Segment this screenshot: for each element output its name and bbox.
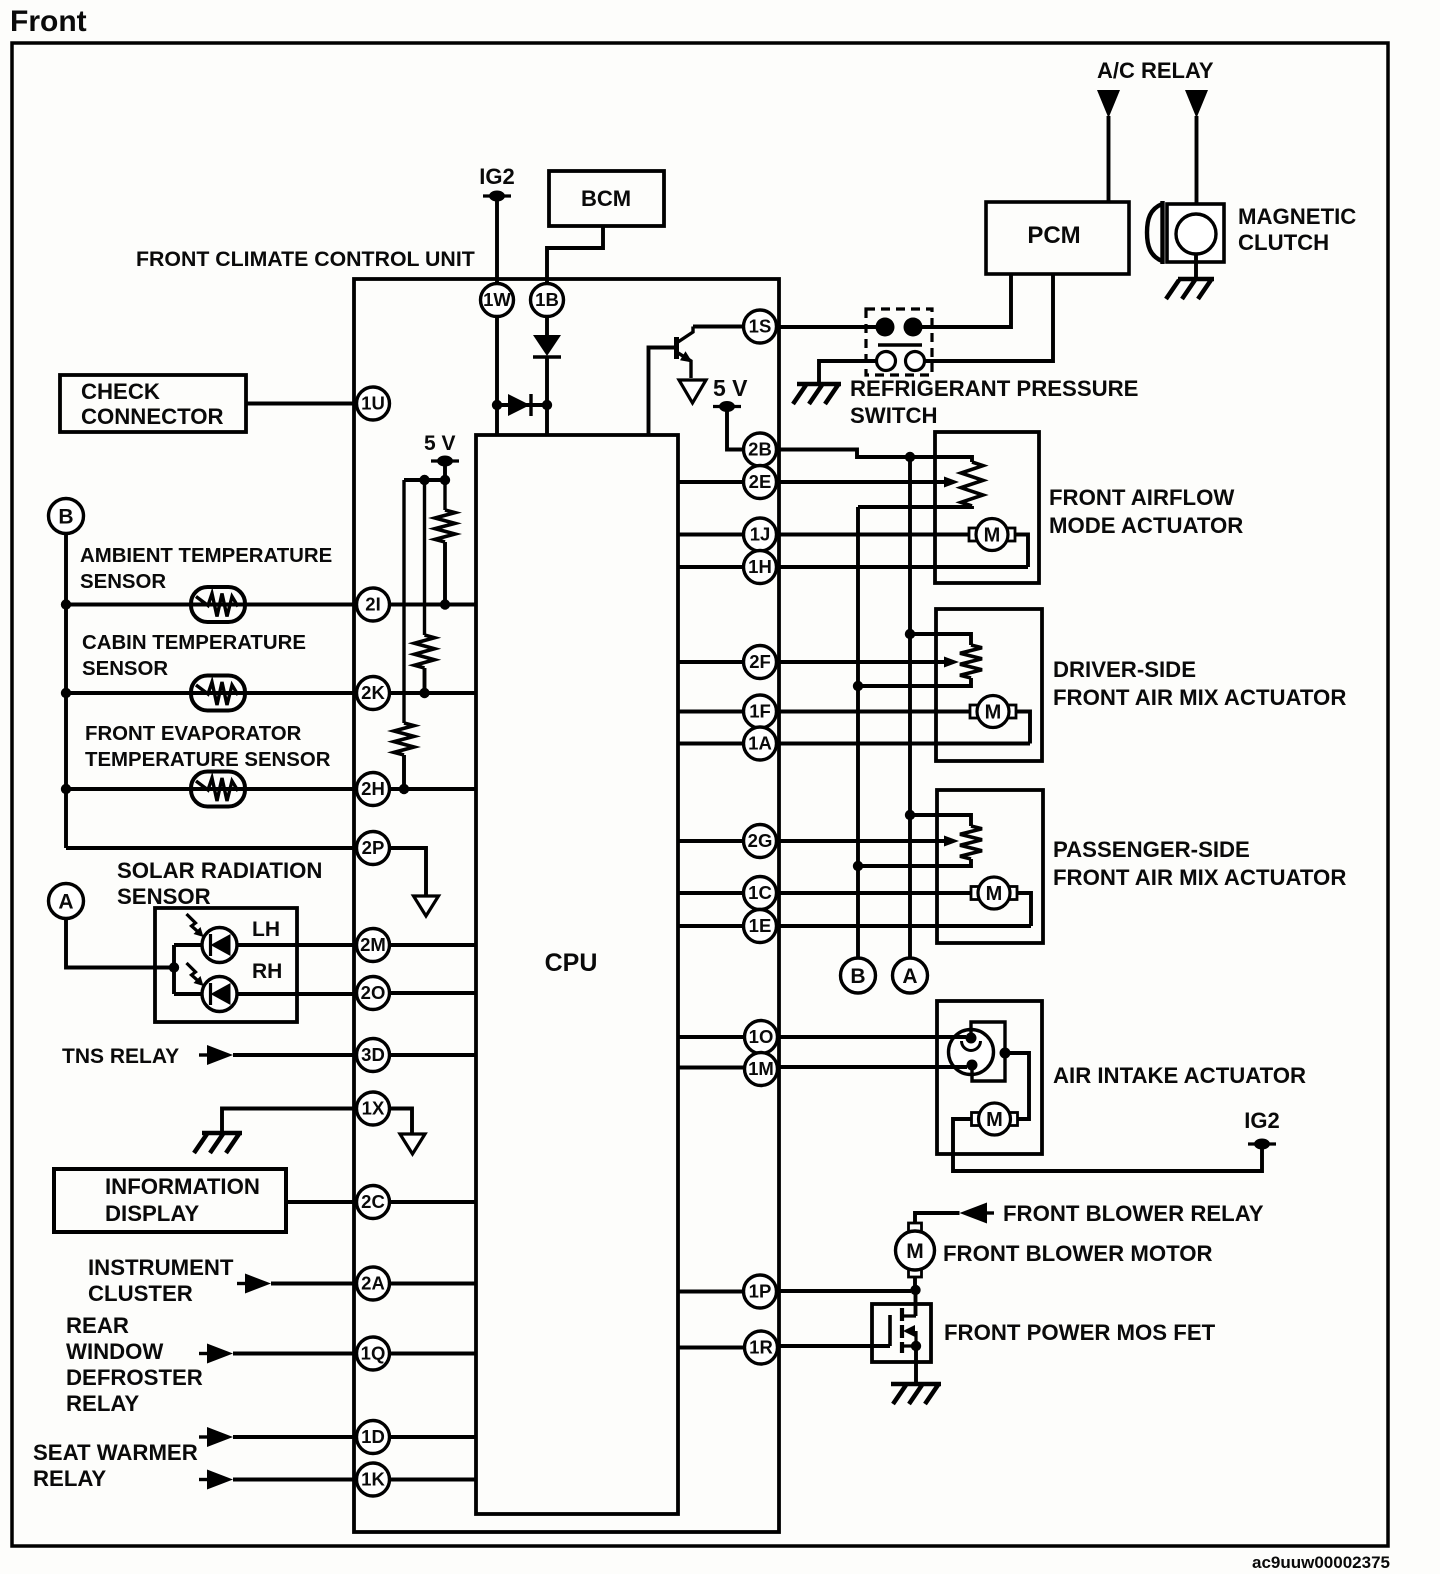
wire cam switch to motor	[1005, 1053, 1029, 1119]
CHECK CONNECTOR box	[60, 375, 246, 432]
node A bottom	[893, 958, 928, 993]
wire 2H row to CPU	[389, 787, 476, 791]
pin 2P	[357, 832, 390, 865]
wiper arrow 2F	[944, 657, 959, 668]
wire motor return to pin 1H	[777, 535, 1029, 568]
pin 1F	[744, 695, 777, 728]
passenger-side front air mix actuator box	[937, 790, 1043, 943]
wire motor return to pin 1E	[777, 893, 1032, 926]
junction R2 2K row	[419, 688, 429, 698]
ground triangle Q1 emitter	[679, 380, 706, 403]
pin 1W	[481, 284, 514, 317]
pin 1S	[744, 310, 777, 343]
position sensor resistor passenger-side	[960, 826, 982, 859]
chassis ground MOSFET	[891, 1384, 941, 1404]
pin 1K	[357, 1463, 390, 1496]
arrow rear window defroster relay	[199, 1344, 233, 1364]
thermistor front evaporator temperature sensor	[191, 772, 245, 807]
wire pin 1Q to CPU	[389, 1352, 476, 1356]
svg-text:A: A	[58, 891, 73, 914]
wire 2K row to CPU	[389, 691, 476, 695]
wire evaporator sensor row	[66, 787, 357, 791]
solar radiation sensor box	[155, 908, 297, 1022]
svg-text:2M: 2M	[360, 934, 386, 955]
svg-text:1W: 1W	[483, 289, 511, 310]
wire node A to sensor	[66, 919, 174, 968]
pin 1R	[745, 1331, 778, 1364]
resistor R2 body	[415, 635, 435, 668]
wire MOSFET source to ground	[914, 1346, 918, 1382]
motor M air intake	[972, 1103, 1018, 1135]
pin 2K	[357, 677, 390, 710]
junction solar common	[169, 962, 179, 972]
wire pin 2B supply rail	[777, 450, 973, 463]
pin 1B	[531, 284, 564, 317]
svg-text:PCM: PCM	[1027, 222, 1080, 249]
power IG2 bus top	[483, 191, 511, 202]
arrow A/C relay feed PCM	[1097, 90, 1120, 118]
junction R1 2I row	[440, 599, 450, 609]
svg-text:RH: RH	[252, 960, 282, 983]
wire pin 2O to CPU	[389, 991, 476, 995]
wire pressure switch to ground	[819, 361, 877, 382]
svg-text:IG2: IG2	[479, 164, 514, 189]
node A left	[49, 884, 84, 919]
diode D1	[533, 335, 561, 357]
svg-text:FRONT BLOWER MOTOR: FRONT BLOWER MOTOR	[943, 1241, 1213, 1266]
arrow TNS relay	[199, 1045, 233, 1065]
svg-text:2K: 2K	[361, 682, 385, 703]
wire node B rail	[66, 534, 357, 849]
wire CPU to pin 2F	[678, 660, 744, 664]
junction R3 2H row	[399, 784, 409, 794]
svg-text:TNS RELAY: TNS RELAY	[62, 1045, 179, 1068]
junction B line passenger actuator	[853, 861, 863, 871]
pin 2A	[357, 1267, 390, 1300]
junction 2B rail node A line	[905, 452, 915, 462]
junction B line driver actuator	[853, 681, 863, 691]
svg-text:FRONT CLIMATE CONTROL UNIT: FRONT CLIMATE CONTROL UNIT	[136, 247, 475, 271]
svg-text:2E: 2E	[749, 471, 772, 492]
svg-text:5 V: 5 V	[424, 432, 456, 455]
pin 1O	[745, 1021, 778, 1054]
ground triangle 1X	[400, 1134, 425, 1154]
svg-text:ac9uuw00002375: ac9uuw00002375	[1252, 1553, 1390, 1572]
svg-text:B: B	[850, 965, 865, 988]
svg-text:BCM: BCM	[581, 186, 631, 211]
svg-text:1O: 1O	[749, 1026, 774, 1047]
svg-text:M: M	[985, 702, 1002, 724]
front blower motor M	[896, 1223, 935, 1277]
wire pin 2F wiper	[777, 660, 945, 664]
wire ambient sensor row	[66, 603, 357, 607]
wire pin 1J to motor	[777, 533, 970, 537]
svg-text:2C: 2C	[361, 1191, 385, 1212]
wire pin 1P to blower junction	[777, 1289, 912, 1293]
wire A line to passenger resistor	[910, 815, 971, 826]
junction 5V rail R1	[440, 475, 450, 485]
svg-text:1R: 1R	[749, 1337, 773, 1358]
wire pin 1O to cam switch	[777, 1035, 967, 1039]
svg-text:1H: 1H	[748, 556, 772, 577]
svg-text:FRONT BLOWER RELAY: FRONT BLOWER RELAY	[1003, 1201, 1264, 1226]
wire TNS relay to pin 3D	[233, 1053, 357, 1057]
wire blower motor to junction	[913, 1277, 917, 1290]
svg-text:1Q: 1Q	[361, 1343, 386, 1364]
wire R1 to 2I row	[443, 542, 447, 605]
svg-text:LH: LH	[252, 918, 280, 941]
pin 1X	[357, 1092, 390, 1125]
wire driver resistor return	[858, 678, 971, 686]
svg-text:1M: 1M	[748, 1058, 774, 1079]
chassis ground 1X	[194, 1133, 242, 1153]
wire BCM to pin 1B	[547, 226, 603, 283]
INFORMATION DISPLAY box	[54, 1169, 286, 1232]
wire pin 2A to CPU	[389, 1282, 476, 1286]
wire magnetic clutch to ground	[1194, 254, 1198, 277]
svg-text:1S: 1S	[749, 316, 772, 337]
wire air intake motor to IG2	[953, 1119, 1262, 1171]
wire pin 1D to CPU	[389, 1435, 476, 1439]
wiper arrow 2G	[944, 836, 959, 847]
resistor R2	[423, 480, 426, 635]
junction 1W rail	[492, 400, 502, 410]
svg-text:2I: 2I	[365, 594, 380, 615]
position sensor resistor front airflow	[961, 462, 983, 506]
arrow front blower relay	[960, 1203, 995, 1224]
pin 1Q	[357, 1337, 390, 1370]
driver-side front air mix actuator box	[936, 609, 1042, 761]
svg-text:2A: 2A	[361, 1273, 385, 1294]
svg-text:1D: 1D	[361, 1426, 385, 1447]
wire pin 2G wiper	[777, 839, 945, 843]
svg-text:FRONT POWER MOS FET: FRONT POWER MOS FET	[944, 1320, 1216, 1345]
svg-text:1X: 1X	[362, 1098, 385, 1119]
svg-text:CPU: CPU	[545, 949, 598, 977]
front airflow mode actuator box	[935, 432, 1039, 583]
svg-text:2H: 2H	[361, 778, 385, 799]
transistor Q1	[677, 327, 694, 379]
pin 1H	[744, 551, 777, 584]
svg-text:A/C RELAY: A/C RELAY	[1097, 58, 1214, 83]
arrow seat warmer relay 1D	[199, 1427, 233, 1447]
wire 1D row	[233, 1435, 357, 1439]
pin 2E	[744, 466, 777, 499]
wire pin 1X to chassis ground	[222, 1109, 357, 1132]
svg-text:1J: 1J	[750, 524, 771, 545]
junction B rail 2H	[61, 784, 71, 794]
photodiode RH	[187, 963, 238, 1012]
junction B rail 2K	[61, 688, 71, 698]
wire pin 2E wiper	[777, 480, 945, 484]
wire pin 1S to pressure switch	[777, 325, 877, 329]
wire CPU to pin 2E	[678, 480, 744, 484]
motor M driver-side	[970, 696, 1016, 728]
photodiode LH	[187, 914, 238, 963]
wiper arrow 2E	[944, 477, 959, 488]
svg-text:2P: 2P	[362, 837, 385, 858]
svg-text:1E: 1E	[749, 915, 772, 936]
chassis ground magnetic clutch	[1166, 279, 1214, 299]
position sensor resistor driver-side	[960, 645, 982, 678]
pin 1U	[357, 387, 390, 420]
svg-text:M: M	[984, 525, 1001, 547]
arrow instrument cluster	[237, 1274, 271, 1294]
wire IG2 to pin 1W	[495, 196, 499, 283]
arrow A/C relay feed clutch	[1185, 90, 1208, 118]
wire junction to MOSFET drain	[914, 1290, 918, 1316]
wire CPU to pin 2G	[678, 839, 744, 843]
thermistor ambient temperature sensor	[191, 587, 245, 622]
svg-text:2B: 2B	[748, 439, 772, 460]
svg-text:M: M	[986, 883, 1003, 905]
wire CPU to pin 1C	[678, 891, 744, 895]
wire pin 3D to CPU	[389, 1053, 476, 1057]
front climate control unit box	[354, 279, 779, 1532]
svg-text:1P: 1P	[749, 1281, 772, 1302]
svg-text:1K: 1K	[361, 1469, 385, 1490]
ground triangle 2P	[414, 896, 439, 916]
svg-text:M: M	[906, 1240, 924, 1263]
wire LH diode leads	[174, 943, 357, 947]
magnetic clutch pulley bracket	[1147, 201, 1163, 264]
svg-text:M: M	[986, 1109, 1003, 1131]
pin 1A	[744, 727, 777, 760]
wire CPU to pin 1R	[678, 1346, 744, 1350]
wire diode D1 to CPU	[545, 357, 549, 436]
wire blower relay to motor	[915, 1213, 960, 1223]
pin 2I	[357, 588, 390, 621]
wire pin 1B to diode D1	[545, 317, 549, 335]
wire CPU to pin 1P	[678, 1290, 744, 1294]
wire A line to driver resistor	[910, 634, 971, 645]
junction 1B rail	[542, 400, 552, 410]
PCM box	[986, 202, 1129, 274]
wire pin 1W to CPU	[495, 317, 499, 436]
wire 5V bus to pin 2B	[727, 407, 744, 450]
pin 1C	[744, 877, 777, 910]
pin 2F	[744, 646, 777, 679]
wire pin 2P to ground	[389, 848, 426, 896]
pin 2C	[357, 1186, 390, 1219]
svg-text:Front: Front	[10, 5, 87, 38]
motor M passenger-side	[971, 877, 1017, 909]
node B left	[49, 499, 84, 534]
wire instrument cluster to pin 2A	[271, 1282, 357, 1286]
wire R2 to 2K row	[423, 668, 427, 693]
wire A/C relay to PCM	[1107, 116, 1111, 202]
refrigerant pressure switch box	[866, 309, 932, 375]
wire pin 1F to motor	[777, 710, 971, 714]
svg-text:A: A	[902, 965, 917, 988]
wire CPU to pin 1E	[678, 924, 744, 928]
wire CPU to pin 1A	[678, 742, 744, 746]
arrow seat warmer relay 1K	[199, 1470, 233, 1490]
wire 2I row to CPU	[389, 603, 476, 607]
wire node A line vertical	[908, 457, 912, 958]
pin 2B	[744, 433, 777, 466]
wire pin 1X to ground triangle	[389, 1109, 412, 1135]
svg-text:IG2: IG2	[1244, 1108, 1279, 1133]
BCM box	[549, 171, 664, 226]
diode D2	[508, 394, 531, 416]
pin 2H	[357, 773, 390, 806]
wire Q1 collector to pin 1S	[693, 325, 744, 329]
power 5V bus left	[431, 456, 459, 467]
wire pin 2C to CPU	[389, 1200, 476, 1204]
wire 1K row	[233, 1478, 357, 1482]
wire CPU to pin 1F	[678, 710, 744, 714]
pin 2G	[744, 825, 777, 858]
air intake actuator box	[937, 1001, 1042, 1154]
pin 1J	[744, 518, 777, 551]
wire defroster relay to pin 1Q	[233, 1352, 357, 1356]
svg-text:1F: 1F	[749, 701, 771, 722]
resistor R1	[443, 480, 446, 510]
wire cabin sensor row	[66, 691, 357, 695]
wire pressure switch to PCM right	[924, 274, 1053, 361]
wire CPU to pin 1J	[678, 533, 744, 537]
wire Q1 base to CPU	[649, 348, 677, 437]
svg-text:2G: 2G	[748, 830, 773, 851]
pin 1D	[357, 1421, 390, 1454]
junction A line driver actuator	[905, 629, 915, 639]
resistor R1 body	[435, 510, 455, 542]
svg-text:2O: 2O	[361, 982, 386, 1003]
pin 1P	[744, 1275, 777, 1308]
svg-text:B: B	[58, 506, 73, 529]
node B bottom	[841, 958, 876, 993]
pin 3D	[357, 1039, 390, 1072]
wire information display to pin 2C	[286, 1200, 357, 1204]
magnetic clutch coil	[1167, 204, 1224, 262]
svg-text:1U: 1U	[361, 393, 385, 414]
junction A line passenger actuator	[905, 810, 915, 820]
wire diode D2 rail	[497, 403, 547, 407]
air intake cam switch	[949, 1022, 1011, 1081]
wire motor return to pin 1A	[777, 712, 1031, 744]
svg-text:1A: 1A	[748, 733, 772, 754]
front power MOS FET box	[872, 1304, 931, 1362]
MOSFET Q2 symbol	[890, 1308, 916, 1353]
resistor R3	[402, 480, 405, 723]
refrigerant pressure switch contacts	[876, 318, 925, 371]
wire pin 2M to CPU	[389, 943, 476, 947]
resistor R3 body	[394, 723, 414, 755]
wire passenger resistor return	[858, 859, 971, 866]
motor M front airflow	[969, 519, 1015, 551]
wire R3 to 2H row	[402, 755, 406, 789]
junction MOSFET source	[911, 1341, 921, 1351]
pin 1M	[745, 1053, 778, 1086]
pin 1E	[744, 910, 777, 943]
wire CPU to pin 1H	[678, 565, 744, 569]
pin 2M	[357, 929, 390, 962]
svg-text:1C: 1C	[748, 882, 772, 903]
junction B rail 2I	[61, 599, 71, 609]
svg-text:5 V: 5 V	[713, 375, 748, 401]
pin 2O	[357, 977, 390, 1010]
wire RH diode leads	[174, 992, 357, 996]
power IG2 bus right	[1248, 1139, 1276, 1150]
junction blower 1P	[910, 1285, 920, 1295]
svg-text:2F: 2F	[749, 651, 771, 672]
wire A/C relay to magnetic clutch	[1195, 116, 1199, 215]
wire front airflow resistor return	[858, 506, 972, 507]
wire pressure switch to PCM left	[922, 274, 1011, 327]
svg-text:1B: 1B	[535, 289, 559, 310]
wire pin 1R to MOSFET gate	[777, 1344, 891, 1348]
wire 5V bus drop	[404, 461, 445, 480]
power 5V bus right	[713, 401, 741, 412]
wire CPU to pin 1M	[678, 1066, 744, 1070]
wire solar sensor common	[172, 945, 176, 994]
svg-text:AIR INTAKE ACTUATOR: AIR INTAKE ACTUATOR	[1053, 1063, 1306, 1088]
wire pin 1C to motor	[777, 891, 972, 895]
svg-text:3D: 3D	[361, 1044, 385, 1065]
chassis ground pressure switch	[793, 384, 841, 404]
wire pin 1M to cam switch	[777, 1065, 968, 1069]
wire node B line vertical	[856, 507, 860, 958]
CPU U1 box	[476, 435, 678, 1514]
thermistor cabin temperature sensor	[191, 676, 245, 711]
wire pin 1K to CPU	[389, 1478, 476, 1482]
wire CPU to pin 1O	[678, 1035, 744, 1039]
wire check connector to pin 1U	[246, 402, 357, 406]
junction 5V rail R2	[419, 475, 429, 485]
